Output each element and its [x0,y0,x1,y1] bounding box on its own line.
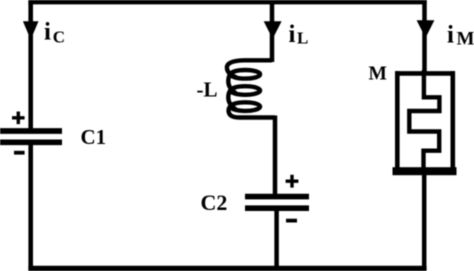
wire middle branch between coil and C2 [273,116,278,198]
svg-text:-L: -L [197,77,218,101]
current arrow iL [264,21,282,39]
C1 minus polarity [14,151,25,155]
svg-text:i: i [447,21,454,48]
wire right branch upper [422,0,427,73]
wire left branch lower [28,142,33,271]
svg-text:i: i [289,21,296,48]
inductor -L bulge arc 2 [228,88,236,110]
wire middle branch lower [274,208,279,271]
memristor M box left edge [395,71,400,171]
svg-text:C: C [53,28,65,47]
inductor -L bulge arc 1 [228,72,236,94]
inductor -L loop 3 [231,102,261,111]
wire right branch lower [422,173,427,271]
svg-text:C1: C1 [81,125,107,149]
memristor M box top edge [395,71,455,76]
capacitor C2 top plate [245,194,309,200]
inductor -L coil exit sweep [229,104,275,118]
capacitor C1 bottom plate [0,139,62,145]
inductor -L coil entry sweep [227,60,272,77]
wire left branch upper [28,0,33,131]
wire top bus [28,0,426,4]
capacitor C1 top plate [0,128,62,134]
C2 minus polarity [286,219,297,223]
svg-text:C2: C2 [201,190,228,215]
inductor -L loop 2 [231,86,261,95]
current arrow iM [417,20,435,38]
capacitor C2 bottom plate [245,205,309,211]
svg-text:L: L [297,28,308,47]
C1 plus polarity [12,112,25,125]
wire middle branch upper [270,0,275,62]
svg-text:M: M [457,28,474,49]
current arrow iC [23,21,39,39]
svg-text:i: i [44,19,51,46]
memristor M box right edge [450,71,455,171]
memristor M bottom electrode bar [393,167,457,175]
wire bottom bus [28,266,426,271]
memristor M meander element [409,70,439,168]
C2 plus polarity [286,175,299,188]
svg-text:M: M [369,63,387,84]
inductor -L loop 1 [231,70,261,79]
